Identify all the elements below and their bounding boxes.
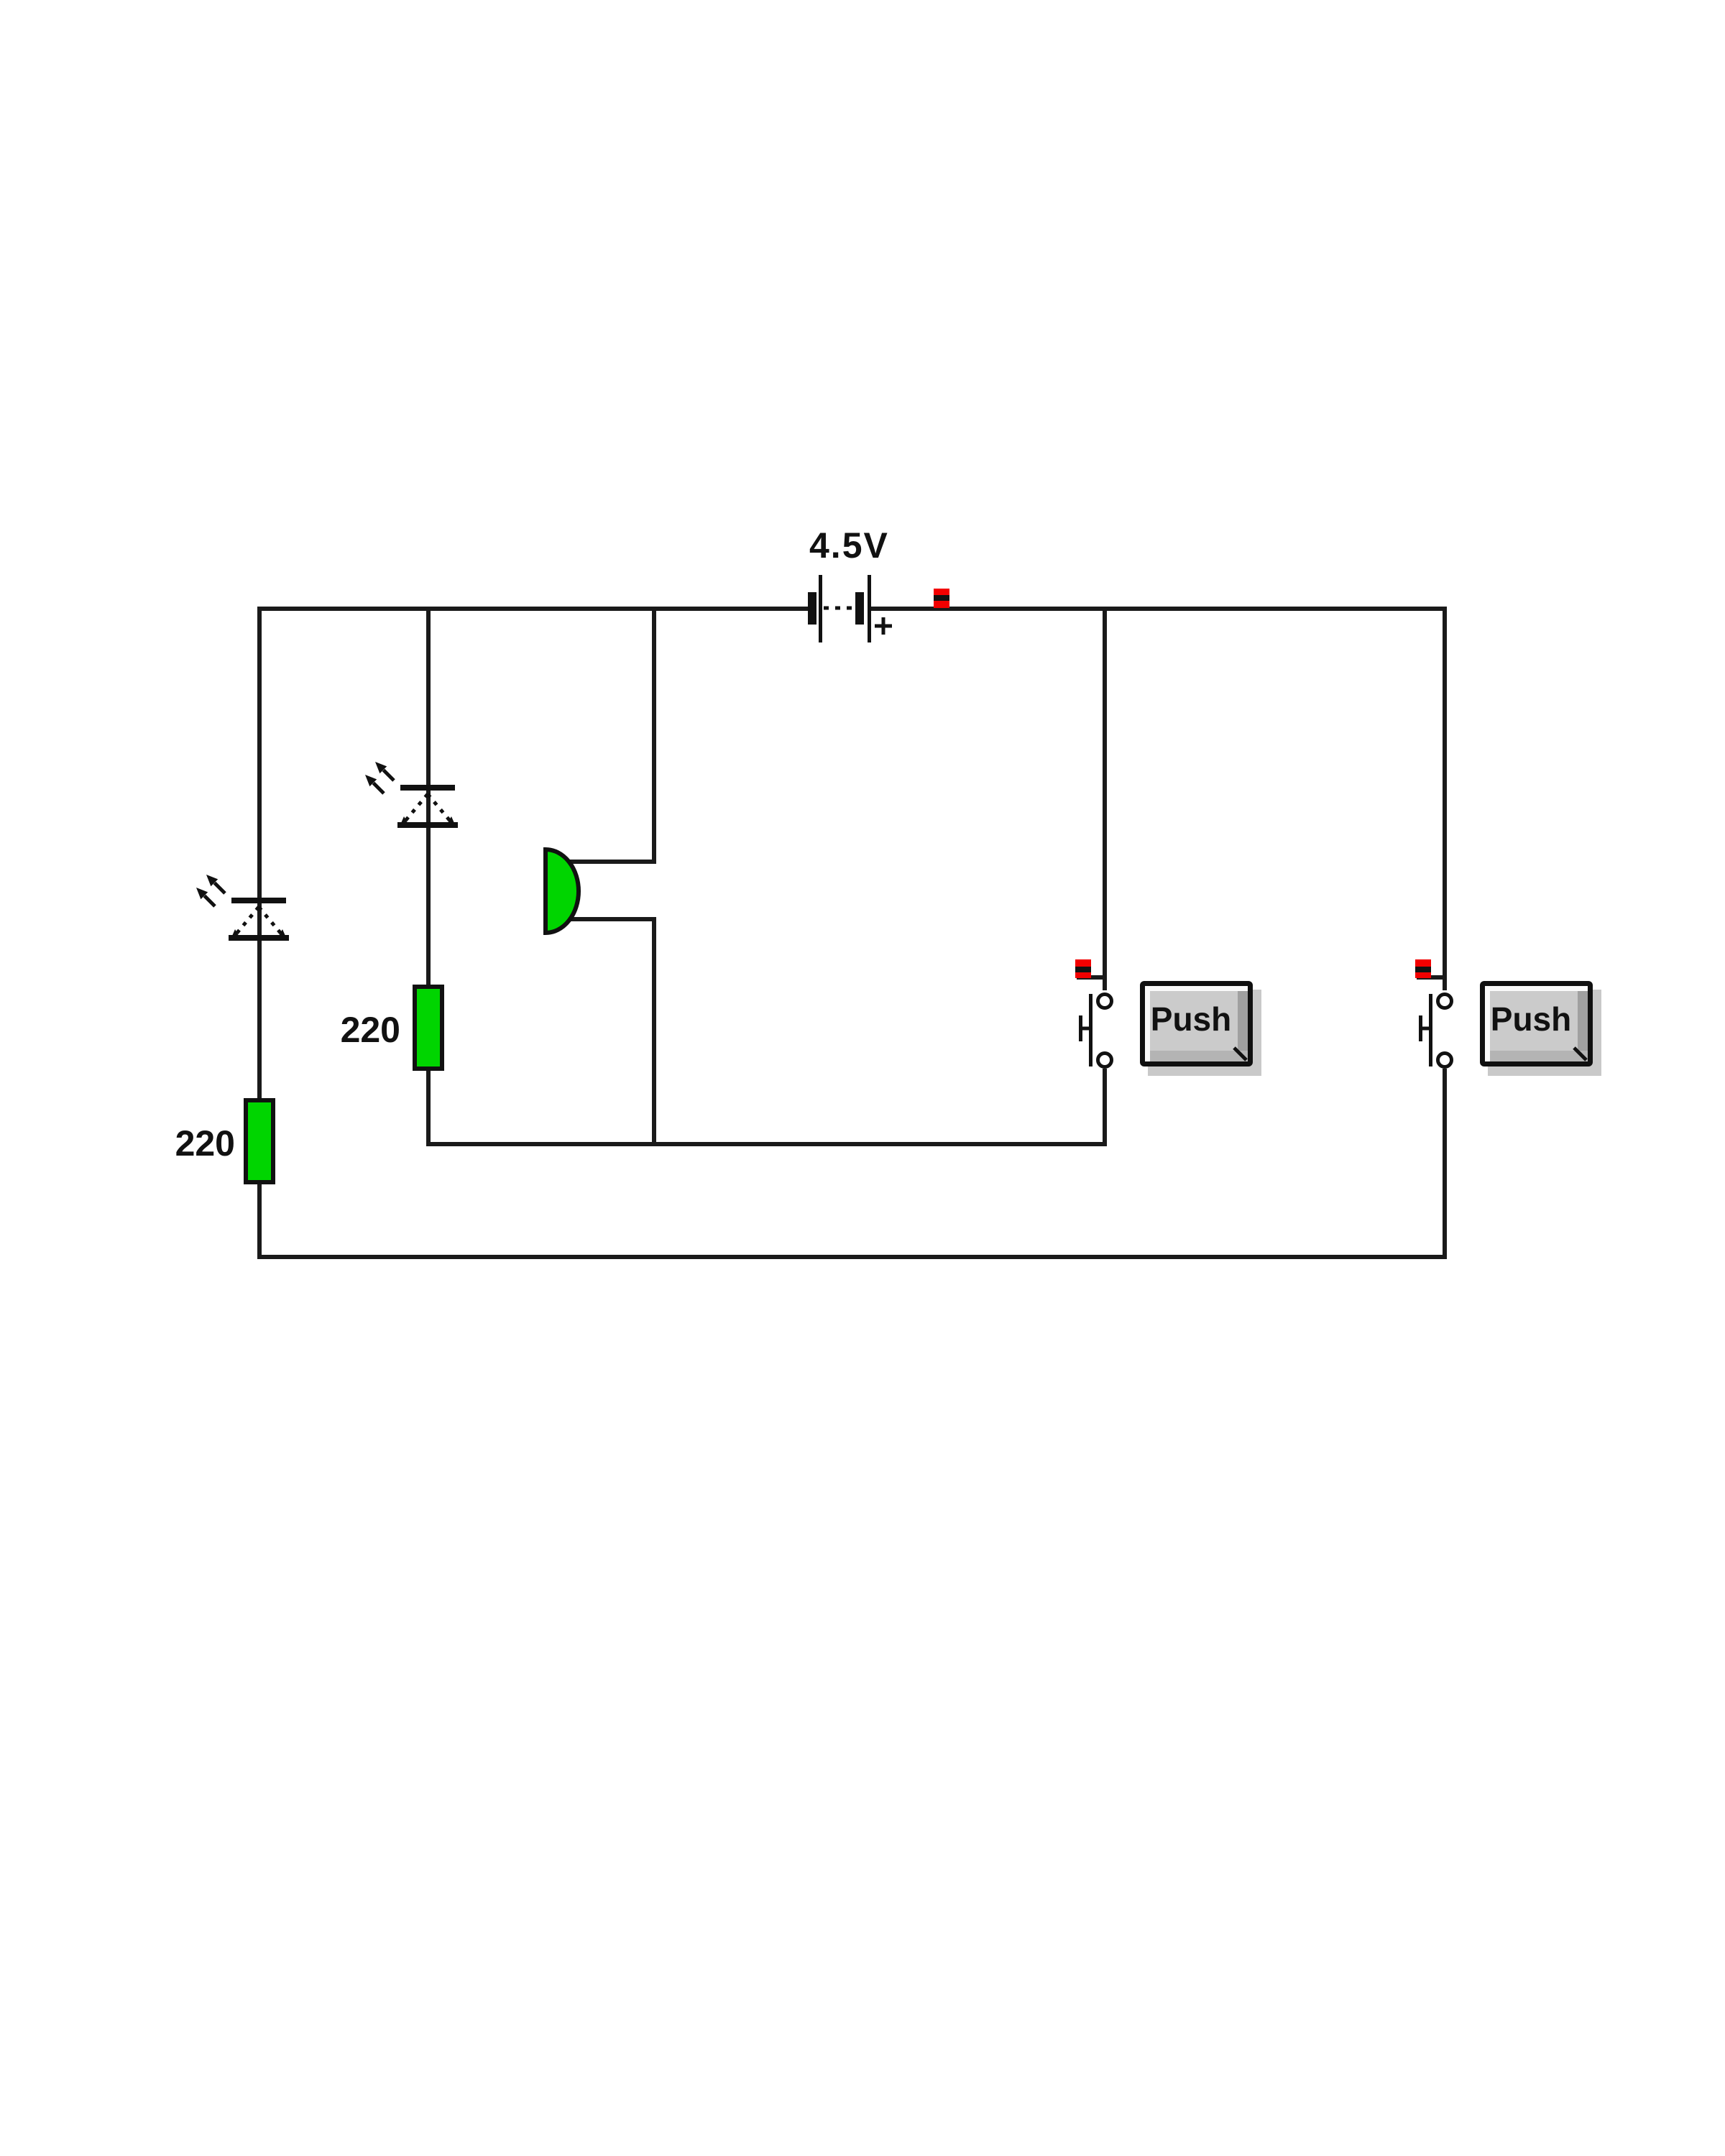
svg-text:220: 220	[175, 1123, 235, 1164]
battery B1 4.5V	[808, 575, 892, 642]
resistor R2	[415, 987, 442, 1069]
wire right rail upper vertical	[1443, 607, 1447, 990]
wire inner bottom rail	[426, 1142, 1107, 1146]
svg-text:Push: Push	[1151, 1000, 1231, 1038]
svg-text:Push: Push	[1491, 1000, 1571, 1038]
wire top rail right segment	[870, 607, 1447, 611]
resistor R1	[246, 1100, 273, 1182]
wire speaker upper vertical	[652, 607, 656, 864]
svg-text:220: 220	[341, 1010, 400, 1050]
wire top rail left segment	[258, 607, 810, 611]
wire second vertical (LED2/R2 branch)	[426, 607, 431, 1144]
wire speaker top stub	[557, 860, 656, 864]
push button SW2 face	[1480, 981, 1601, 1076]
loudspeaker LS1	[546, 849, 579, 933]
push button SW1 face	[1140, 981, 1261, 1076]
wire right rail lower vertical	[1443, 1069, 1447, 1259]
wire speaker lower vertical	[652, 917, 656, 1144]
LED D1	[196, 875, 289, 941]
push switch SW2	[1415, 959, 1452, 1067]
wire switch1 upper vertical	[1103, 607, 1107, 990]
wire switch1 lower vertical	[1103, 1069, 1107, 1146]
LED D2	[365, 762, 458, 828]
svg-text:4.5V: 4.5V	[809, 525, 889, 566]
wire left rail vertical	[257, 607, 262, 1259]
wire speaker bottom stub	[557, 917, 656, 921]
node indicator (red) at battery	[934, 589, 949, 608]
wire outer bottom rail	[257, 1255, 1447, 1259]
push switch SW1	[1075, 959, 1112, 1067]
